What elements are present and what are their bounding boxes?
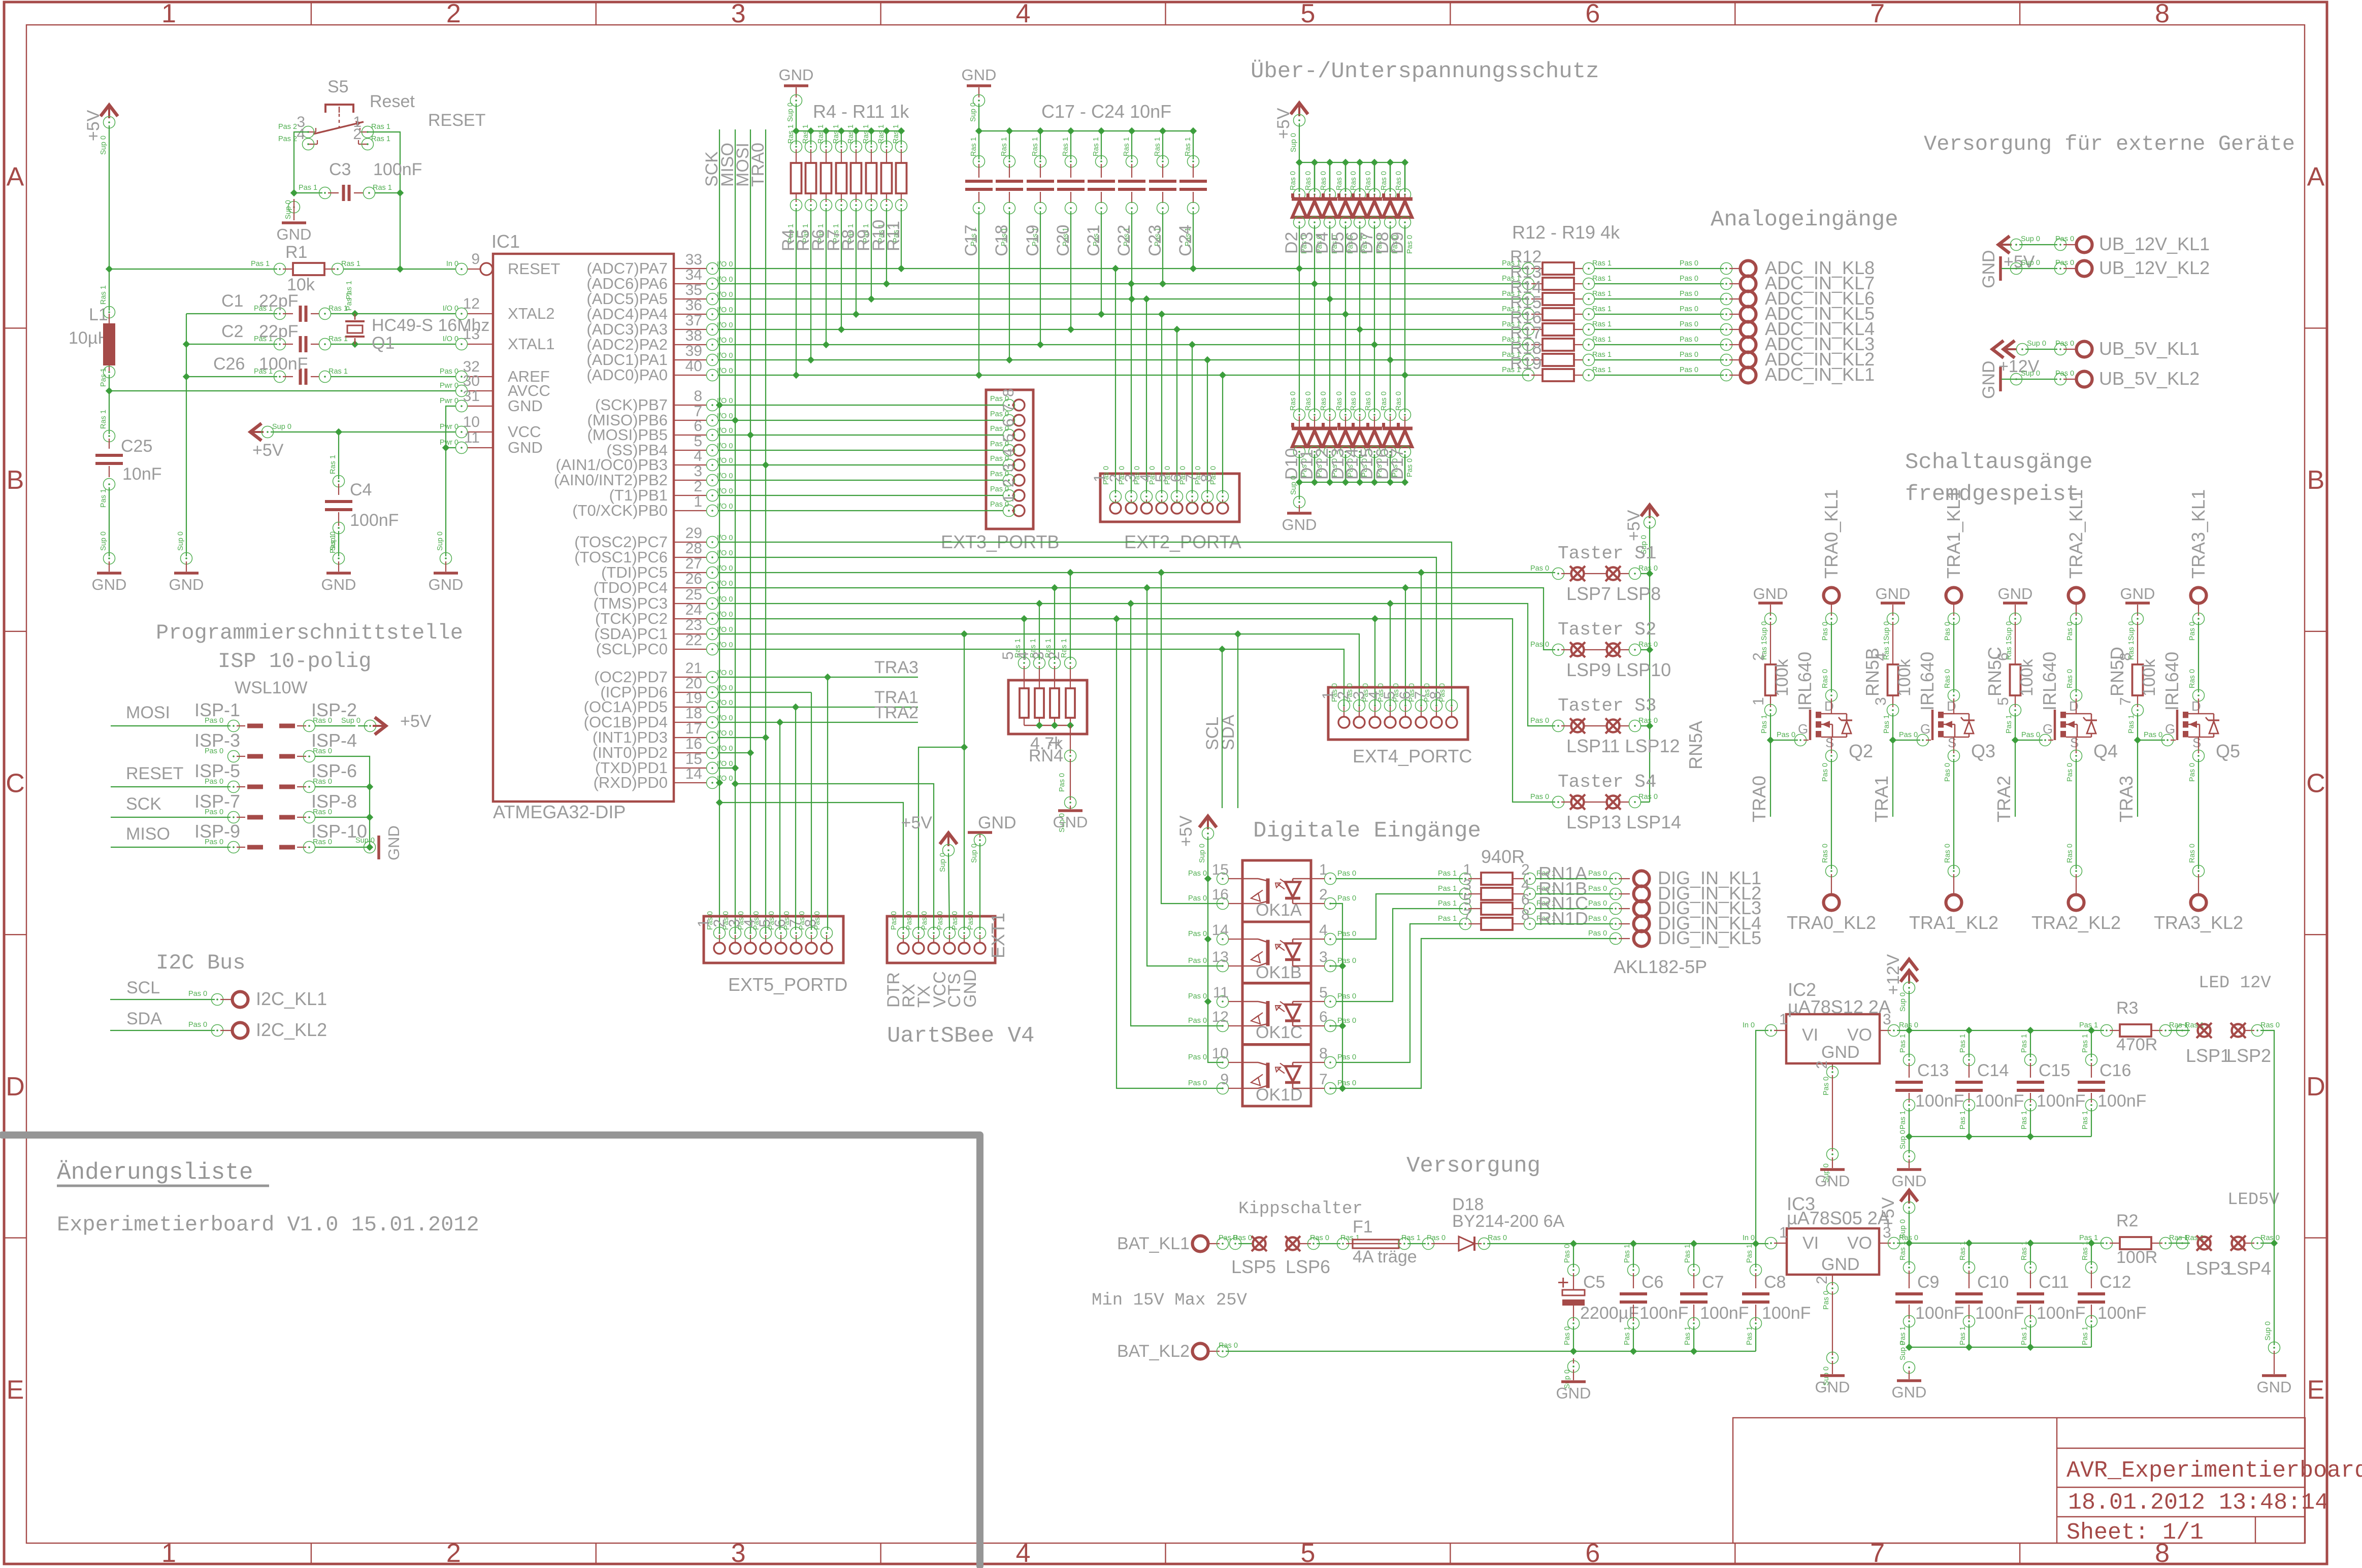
wire gate to MOSFET Q3 (1893, 740, 1920, 741)
junction resistor/PA row (793, 372, 800, 379)
resistor R9 (868, 127, 875, 135)
svg-text:UartSBee V4: UartSBee V4 (887, 1023, 1034, 1049)
svg-text:35: 35 (685, 282, 702, 298)
svg-text:RN4: RN4 (1029, 746, 1063, 765)
wire resistor to PA row (886, 208, 887, 284)
wire IC1 pin 31 GND to rail (446, 406, 455, 448)
svg-text:I2C Bus: I2C Bus (156, 951, 245, 975)
svg-text:Pas 1: Pas 1 (2020, 1034, 2028, 1053)
ground below C25 (97, 572, 121, 575)
svg-text:Ras 1: Ras 1 (877, 124, 885, 144)
junction PC5/EXT4 pin6 (1418, 569, 1425, 576)
wire left rail of C1/C2/C26 (186, 314, 187, 556)
connector EXT3_PORTB pin 8 (1013, 399, 1025, 411)
wire UB_12V_KL2 (2002, 268, 2057, 269)
junction RESET node (397, 265, 404, 273)
svg-text:16: 16 (685, 736, 702, 752)
svg-text:(RXD)PD0: (RXD)PD0 (594, 774, 668, 791)
svg-text:Sup 0: Sup 0 (2127, 621, 2136, 641)
svg-text:Digitale Eingänge: Digitale Eingänge (1253, 818, 1481, 844)
svg-text:Ras 1: Ras 1 (1592, 275, 1612, 283)
svg-text:D: D (2306, 1072, 2325, 1102)
svg-text:(TDO)PC4: (TDO)PC4 (594, 579, 668, 596)
svg-text:I2C_KL1: I2C_KL1 (256, 988, 327, 1009)
IC1 right pin 25 (TMS)PC3 (674, 603, 707, 604)
svg-text:Ras 1: Ras 1 (970, 137, 978, 156)
svg-text:GND: GND (277, 225, 312, 243)
svg-text:RESET: RESET (508, 260, 560, 278)
frame row tick (4, 631, 26, 632)
svg-text:TRA0_KL1: TRA0_KL1 (1821, 489, 1842, 579)
svg-text:Ras 1: Ras 1 (1899, 1241, 1907, 1260)
svg-text:XTAL1: XTAL1 (508, 335, 554, 353)
pad DIG_IN_KL1 (1634, 871, 1650, 887)
svg-text:Ras 0: Ras 0 (1395, 391, 1403, 411)
power +5V arrow above diode array (1291, 103, 1308, 114)
junction PD0 (716, 779, 723, 786)
connector EXT3_PORTB pin 1 (1013, 505, 1025, 516)
wire capacitor to PA row (1131, 211, 1132, 299)
RN4 pin 1 to GND (1070, 725, 1071, 753)
svg-text:Pas 0: Pas 0 (1530, 717, 1549, 725)
svg-text:RESET: RESET (126, 764, 183, 783)
wire SDA to I2C_KL2 (110, 1030, 215, 1031)
frame column tick (880, 2, 881, 25)
wire capacitor to PA row (1040, 211, 1041, 345)
svg-text:VCC: VCC (508, 423, 541, 441)
junction C6 (1630, 1240, 1637, 1247)
svg-text:4: 4 (1016, 0, 1031, 28)
svg-text:Ras 0: Ras 0 (1289, 391, 1297, 411)
junction resistor/PA row (852, 311, 860, 318)
connector EXT2_PORTA pin 7 (1202, 503, 1213, 514)
svg-text:Pas 0: Pas 0 (1406, 458, 1414, 477)
IC1 right pin 3 (AIN0/INT2)PB2 (674, 480, 707, 481)
wire resistor to PA row (901, 208, 902, 269)
capacitor C26 (186, 376, 277, 377)
svg-text:TRA2_KL1: TRA2_KL1 (2065, 489, 2086, 579)
svg-text:LSP3: LSP3 (2186, 1258, 2230, 1279)
wire +5V to IC1 pin 10 VCC (271, 431, 455, 432)
wire capacitor to PA row (978, 211, 979, 375)
svg-text:Q2: Q2 (1849, 741, 1873, 761)
junction PD3 (762, 734, 769, 741)
svg-text:LSP6: LSP6 (1286, 1256, 1330, 1277)
junction PD2 (747, 749, 754, 756)
svg-text:3: 3 (1122, 474, 1139, 482)
wire PD2 row (718, 752, 750, 753)
svg-text:5: 5 (1463, 891, 1471, 908)
svg-text:S: S (1948, 735, 1956, 750)
wire EXT2 pin 5 to PA row (1176, 329, 1177, 493)
svg-text:Ras 0: Ras 0 (2188, 844, 2196, 863)
svg-text:6: 6 (1521, 891, 1530, 908)
svg-text:Pas 0: Pas 0 (1563, 1244, 1571, 1263)
junction 5V arrow (1906, 1240, 1913, 1247)
junction EXT2 pin 7/PA row (1204, 356, 1211, 363)
junction C26 left rail (183, 373, 190, 380)
svg-text:2: 2 (694, 478, 702, 495)
svg-text:2: 2 (353, 126, 362, 143)
wire PB5 row (718, 435, 1003, 436)
svg-text:2: 2 (1814, 1276, 1830, 1284)
resistor RN5A? 100k gate pulldown (1770, 622, 1771, 664)
wire PB6 row (718, 420, 1003, 421)
svg-text:Änderungsliste: Änderungsliste (57, 1159, 253, 1186)
connector EXT3_PORTB pin 6 (1013, 429, 1025, 441)
wire SCL stub down (1222, 649, 1223, 808)
pad UB_5V_KL2 (2077, 372, 2092, 387)
svg-text:Ras 1: Ras 1 (1123, 137, 1131, 156)
svg-text:2: 2 (1521, 861, 1530, 878)
connector EXT2_PORTA pin 6 (1187, 503, 1198, 514)
svg-text:Ras 1: Ras 1 (1401, 1234, 1421, 1242)
optocoupler OK1A LED symbol (1266, 879, 1270, 904)
svg-text:LSP4: LSP4 (2226, 1258, 2271, 1279)
wire F1 to D18 (1407, 1243, 1426, 1244)
svg-text:Programmierschnittstelle: Programmierschnittstelle (156, 621, 463, 645)
svg-text:XTAL2: XTAL2 (508, 305, 554, 322)
wire PA0 row (718, 375, 1528, 376)
wire UB_12V_KL1 (2019, 244, 2057, 245)
frame column tick (596, 2, 597, 25)
svg-text:Über-/Unterspannungsschutz: Über-/Unterspannungsschutz (1251, 59, 1599, 84)
junction taster/+5V rail (1646, 722, 1653, 729)
svg-text:Ras 1: Ras 1 (1060, 639, 1068, 658)
wire EXT2 pin 3 to PA row (1146, 299, 1147, 493)
svg-text:RN5D: RN5D (2107, 647, 2127, 696)
svg-text:3: 3 (1319, 949, 1328, 965)
svg-text:TRA3: TRA3 (874, 658, 918, 677)
junction LED returns (2271, 1240, 2278, 1247)
wire RN1D to pad DIG_IN_KL4 (1535, 923, 1613, 924)
svg-text:Pas 1: Pas 1 (1684, 1326, 1692, 1345)
ground UB_12V_KL2 (1999, 256, 2002, 281)
wire diode column (1390, 225, 1391, 412)
resistor RN5B 100k gate pulldown (1892, 622, 1893, 664)
svg-text:C12: C12 (2099, 1273, 2131, 1292)
wire LSP10 to +5V rail (1641, 649, 1650, 650)
svg-text:19: 19 (685, 690, 702, 707)
svg-text:Ras 0: Ras 0 (1304, 391, 1313, 411)
svg-text:31: 31 (463, 388, 480, 405)
wire LSP12 to +5V rail (1641, 725, 1650, 726)
wire PD0 row (718, 782, 719, 783)
svg-text:TRA3_KL2: TRA3_KL2 (2154, 912, 2243, 933)
svg-text:TRA1_KL2: TRA1_KL2 (1909, 912, 1998, 933)
junction +5V/OK1C (1204, 998, 1211, 1005)
svg-text:UB_12V_KL2: UB_12V_KL2 (2099, 257, 2210, 278)
svg-text:AVR_Experimentierboard: AVR_Experimentierboard (2066, 1458, 2362, 1484)
svg-text:Ras 0: Ras 0 (1364, 391, 1372, 411)
capacitor C9 100nF (1909, 1243, 1910, 1265)
connector EXT4_PORTC pin 3 (1369, 717, 1381, 728)
svg-text:25: 25 (685, 586, 702, 603)
capacitor C20 (1067, 127, 1074, 135)
svg-text:C16: C16 (2099, 1061, 2131, 1080)
connector EXT5_PORTD pin 6 (791, 943, 802, 954)
svg-text:Ras 0: Ras 0 (1638, 717, 1658, 725)
svg-text:Pas 1: Pas 1 (1438, 885, 1457, 893)
transistor Q5 IRL640 MOSFET (2176, 710, 2179, 740)
svg-text:TRA2: TRA2 (874, 703, 918, 722)
pad ADC_IN_KL1 (1741, 368, 1756, 383)
svg-text:Pas 1: Pas 1 (2079, 1234, 2098, 1242)
svg-text:17: 17 (685, 720, 702, 737)
svg-text:C5: C5 (1583, 1273, 1605, 1292)
svg-text:Ras 0: Ras 0 (1350, 171, 1358, 190)
wire LSP9-LSP10 link (1585, 649, 1606, 650)
svg-text:1: 1 (1091, 474, 1108, 482)
solder pad LSP10 (1607, 644, 1620, 656)
diode D6 (1356, 159, 1363, 166)
IC3 pin 1 input (1765, 1238, 1777, 1249)
wire IC1 pin 11 GND (446, 447, 455, 448)
svg-text:Pas 1: Pas 1 (1899, 1111, 1907, 1129)
wire PA6 row (718, 283, 1528, 284)
svg-text:+5V: +5V (252, 441, 284, 460)
svg-text:Pas 0: Pas 0 (1530, 793, 1549, 801)
transistor Q2 IRL640 MOSFET (1809, 710, 1812, 740)
svg-text:4: 4 (1137, 474, 1154, 482)
svg-text:Pas 0: Pas 0 (1588, 899, 1607, 908)
pad ADC_IN_KL2 (1741, 352, 1756, 368)
resistor R8 (852, 127, 860, 135)
svg-text:Pas 0: Pas 0 (1680, 351, 1698, 359)
junction resistor/PA row (838, 326, 845, 333)
svg-text:Ras 0: Ras 0 (1233, 1234, 1252, 1242)
svg-text:11: 11 (1213, 984, 1229, 1001)
svg-text:GND: GND (1053, 813, 1088, 831)
junction diode column/PA row (1371, 341, 1378, 348)
pad DIG_IN_KL3 (1634, 901, 1650, 917)
svg-text:F1: F1 (1353, 1217, 1373, 1237)
svg-text:Sup 0: Sup 0 (939, 853, 947, 872)
junction C7 bottom (1690, 1348, 1697, 1355)
svg-text:Pas 0: Pas 0 (1188, 1053, 1207, 1061)
svg-text:100k: 100k (2017, 658, 2037, 696)
svg-text:G: G (1798, 721, 1808, 737)
wire EXT5 pin8 from PD7/TRA3 (827, 677, 828, 930)
IC1 right pin 4 (AIN1/OC0)PB3 (674, 464, 707, 465)
junction MOSI/PB5 (747, 431, 754, 439)
pad DIG_IN_KL5 (1634, 931, 1650, 947)
wire resistor to PA row (826, 208, 827, 345)
svg-text:4: 4 (1000, 448, 1017, 457)
wire GND to EXT1 GND pin (979, 843, 980, 930)
svg-text:Pas 0: Pas 0 (1680, 290, 1698, 298)
svg-text:EXT4_PORTC: EXT4_PORTC (1353, 746, 1472, 766)
svg-text:Ras 1: Ras 1 (1592, 366, 1612, 374)
svg-text:Sup 0: Sup 0 (1899, 1130, 1907, 1149)
wire EXT2 pin 7 to PA row (1207, 360, 1208, 493)
wire LSP7-LSP8 link (1585, 573, 1606, 574)
junction opto input (1158, 569, 1165, 576)
wire R12 to ADC pad (1594, 268, 1724, 269)
svg-text:C2: C2 (221, 322, 243, 341)
wire C15 to gnd rail (2030, 1108, 2031, 1137)
junction diode column/PA row (1326, 295, 1333, 303)
svg-text:100nF: 100nF (350, 511, 399, 530)
svg-text:100nF: 100nF (1915, 1091, 1964, 1111)
optocoupler OK1C left pins (1217, 996, 1229, 1008)
svg-text:Pas 0: Pas 0 (1337, 957, 1356, 965)
svg-text:30: 30 (463, 373, 480, 389)
wire LSP4 to LED return (2260, 1243, 2274, 1244)
svg-text:GND: GND (962, 66, 997, 84)
svg-text:100nF: 100nF (2037, 1091, 2085, 1111)
svg-text:100nF: 100nF (2037, 1304, 2085, 1323)
wire PA3 row (718, 329, 1528, 330)
svg-text:Pas 0: Pas 0 (1337, 870, 1356, 878)
svg-text:RESET: RESET (428, 111, 485, 130)
svg-text:Q1: Q1 (372, 333, 395, 353)
svg-text:C1: C1 (221, 291, 243, 311)
svg-text:R12 - R19 4k: R12 - R19 4k (1512, 222, 1620, 243)
svg-text:Pas 1: Pas 1 (299, 184, 317, 192)
RN4 resistor element pin 3 (1050, 688, 1059, 718)
svg-text:Pas 0: Pas 0 (1680, 366, 1698, 374)
svg-text:Ras 0: Ras 0 (313, 717, 332, 725)
svg-text:C4: C4 (350, 480, 372, 499)
pad TRA1_KL1 (1946, 588, 1962, 604)
svg-text:C18: C18 (992, 225, 1011, 256)
wire EXT5 pin5 from PD4/TRA2 (779, 722, 780, 930)
resistor R10 (883, 127, 890, 135)
svg-text:GND: GND (2120, 585, 2155, 603)
junction diode column/PA row (1296, 265, 1303, 272)
power +5V supply arrow top-left (101, 105, 118, 116)
IC1 right pin 35 (ADC5)PA5 (674, 298, 707, 299)
svg-text:LSP9 LSP10: LSP9 LSP10 (1566, 659, 1671, 680)
capacitor C13 100nF (1909, 1030, 1910, 1057)
svg-text:1: 1 (695, 919, 712, 927)
junction +5V/OK1B (1204, 936, 1211, 943)
svg-text:Pas 0: Pas 0 (2066, 622, 2074, 641)
wire C12 to gnd rail (2091, 1324, 2092, 1347)
title block row line 2 (2057, 1487, 2305, 1488)
svg-text:8: 8 (1521, 907, 1530, 923)
svg-text:Sup 0: Sup 0 (1290, 133, 1298, 152)
wire EXT2 pin 1 to PA row (1115, 269, 1116, 493)
solder pad LSP6 (1287, 1238, 1299, 1250)
diode D2 (1296, 159, 1303, 166)
svg-text:E: E (2307, 1375, 2325, 1405)
svg-text:B: B (2307, 465, 2325, 495)
wire R4-R11 top rail (796, 130, 901, 131)
svg-text:Pas 1: Pas 1 (2127, 715, 2136, 733)
svg-text:GND: GND (1998, 585, 2033, 603)
svg-text:Taster S2: Taster S2 (1558, 619, 1656, 640)
wire SCK to ISP-7 (111, 817, 231, 818)
svg-text:RN5A: RN5A (1685, 721, 1706, 770)
connector EXT5_PORTD pin 1 (714, 943, 725, 954)
junction ISP-6 (366, 783, 373, 790)
svg-text:ATMEGA32-DIP: ATMEGA32-DIP (493, 802, 626, 822)
connector EXT5_PORTD pin 7 (806, 943, 817, 954)
wire gate to MOSFET Q2 (1770, 740, 1798, 741)
svg-text:Pas 0: Pas 0 (440, 368, 458, 376)
IC1 right pin 40 (ADC0)PA0 (674, 375, 707, 376)
connector EXT1 body (887, 916, 995, 963)
wire diode top rail +5V (1299, 162, 1405, 163)
svg-text:TRA0_KL2: TRA0_KL2 (1787, 912, 1876, 933)
capacitor C1 (186, 313, 277, 314)
resistor RN1C (1460, 903, 1471, 915)
svg-text:C3: C3 (329, 160, 351, 179)
svg-text:Pas 0: Pas 0 (1427, 1234, 1446, 1242)
svg-text:21: 21 (685, 660, 702, 677)
svg-text:100nF: 100nF (2097, 1304, 2146, 1323)
junction C6 bottom (1630, 1348, 1637, 1355)
svg-text:16: 16 (1212, 886, 1229, 903)
wire R3 to LSP1 (2169, 1030, 2190, 1031)
svg-text:5: 5 (1153, 474, 1169, 482)
junction C9 (1965, 1240, 1973, 1247)
solder pad LSP14 (1607, 796, 1620, 809)
svg-text:Pas 0: Pas 0 (1680, 336, 1698, 344)
ground below C4 (326, 572, 351, 575)
svg-text:BAT_KL1: BAT_KL1 (1117, 1234, 1190, 1253)
svg-text:+5V: +5V (1176, 815, 1196, 847)
capacitor C3 (294, 192, 322, 193)
svg-text:3: 3 (1873, 697, 1889, 706)
svg-text:Pas 1: Pas 1 (1746, 1326, 1754, 1345)
ground UB_5V_KL2 (1999, 367, 2002, 391)
wire +5V vertical digital (1208, 837, 1223, 1062)
svg-text:G: G (1920, 721, 1930, 737)
svg-text:DIG_IN_KL5: DIG_IN_KL5 (1658, 927, 1761, 948)
svg-text:Sheet: 1/1: Sheet: 1/1 (2066, 1520, 2204, 1546)
connector EXT5_PORTD pin 2 (730, 943, 741, 954)
IC1 right pin 17 (INT1)PD3 (674, 737, 707, 738)
svg-text:3: 3 (731, 0, 746, 28)
svg-text:7: 7 (1319, 1071, 1328, 1088)
svg-text:Pwr 0: Pwr 0 (440, 397, 458, 405)
svg-text:EXT5_PORTD: EXT5_PORTD (728, 974, 847, 995)
svg-text:4A träge: 4A träge (1353, 1247, 1417, 1266)
svg-text:14: 14 (1212, 922, 1229, 939)
pad TRA0_KL1 (1824, 588, 1840, 604)
junction AVCC node below L1 (106, 387, 113, 394)
diode D9 (1401, 159, 1408, 166)
svg-text:Ras 1: Ras 1 (341, 260, 360, 268)
wire DTR to PD0 bus (719, 803, 903, 930)
svg-text:GND: GND (508, 439, 543, 456)
wire +12V to rail (1909, 991, 1910, 1030)
resistor RN1A (1460, 873, 1471, 885)
junction PC2/EXT4 pin3 (1371, 615, 1379, 622)
wire RESET node to IC1 pin 9 (400, 269, 455, 270)
connector EXT2_PORTA pin 1 (1110, 503, 1121, 514)
svg-text:34: 34 (685, 266, 702, 283)
svg-text:12: 12 (1212, 1009, 1229, 1025)
svg-text:Ras 1: Ras 1 (329, 335, 348, 343)
svg-text:Ras 0: Ras 0 (1380, 171, 1388, 190)
svg-text:Pas 0: Pas 0 (1337, 1079, 1356, 1087)
svg-text:7: 7 (2117, 697, 2134, 706)
diode D16 (1387, 479, 1394, 486)
svg-text:100k: 100k (1773, 658, 1792, 696)
svg-text:Ras 0: Ras 0 (1944, 669, 1952, 688)
junction capacitor/PA row (1128, 295, 1135, 303)
svg-text:GND: GND (1876, 585, 1911, 603)
Q2 body diode (1832, 713, 1847, 715)
RN4 resistor element pin 4 (1035, 688, 1044, 718)
svg-text:S5: S5 (327, 77, 349, 96)
svg-text:8: 8 (802, 919, 819, 927)
frame column tick (1734, 2, 1735, 25)
